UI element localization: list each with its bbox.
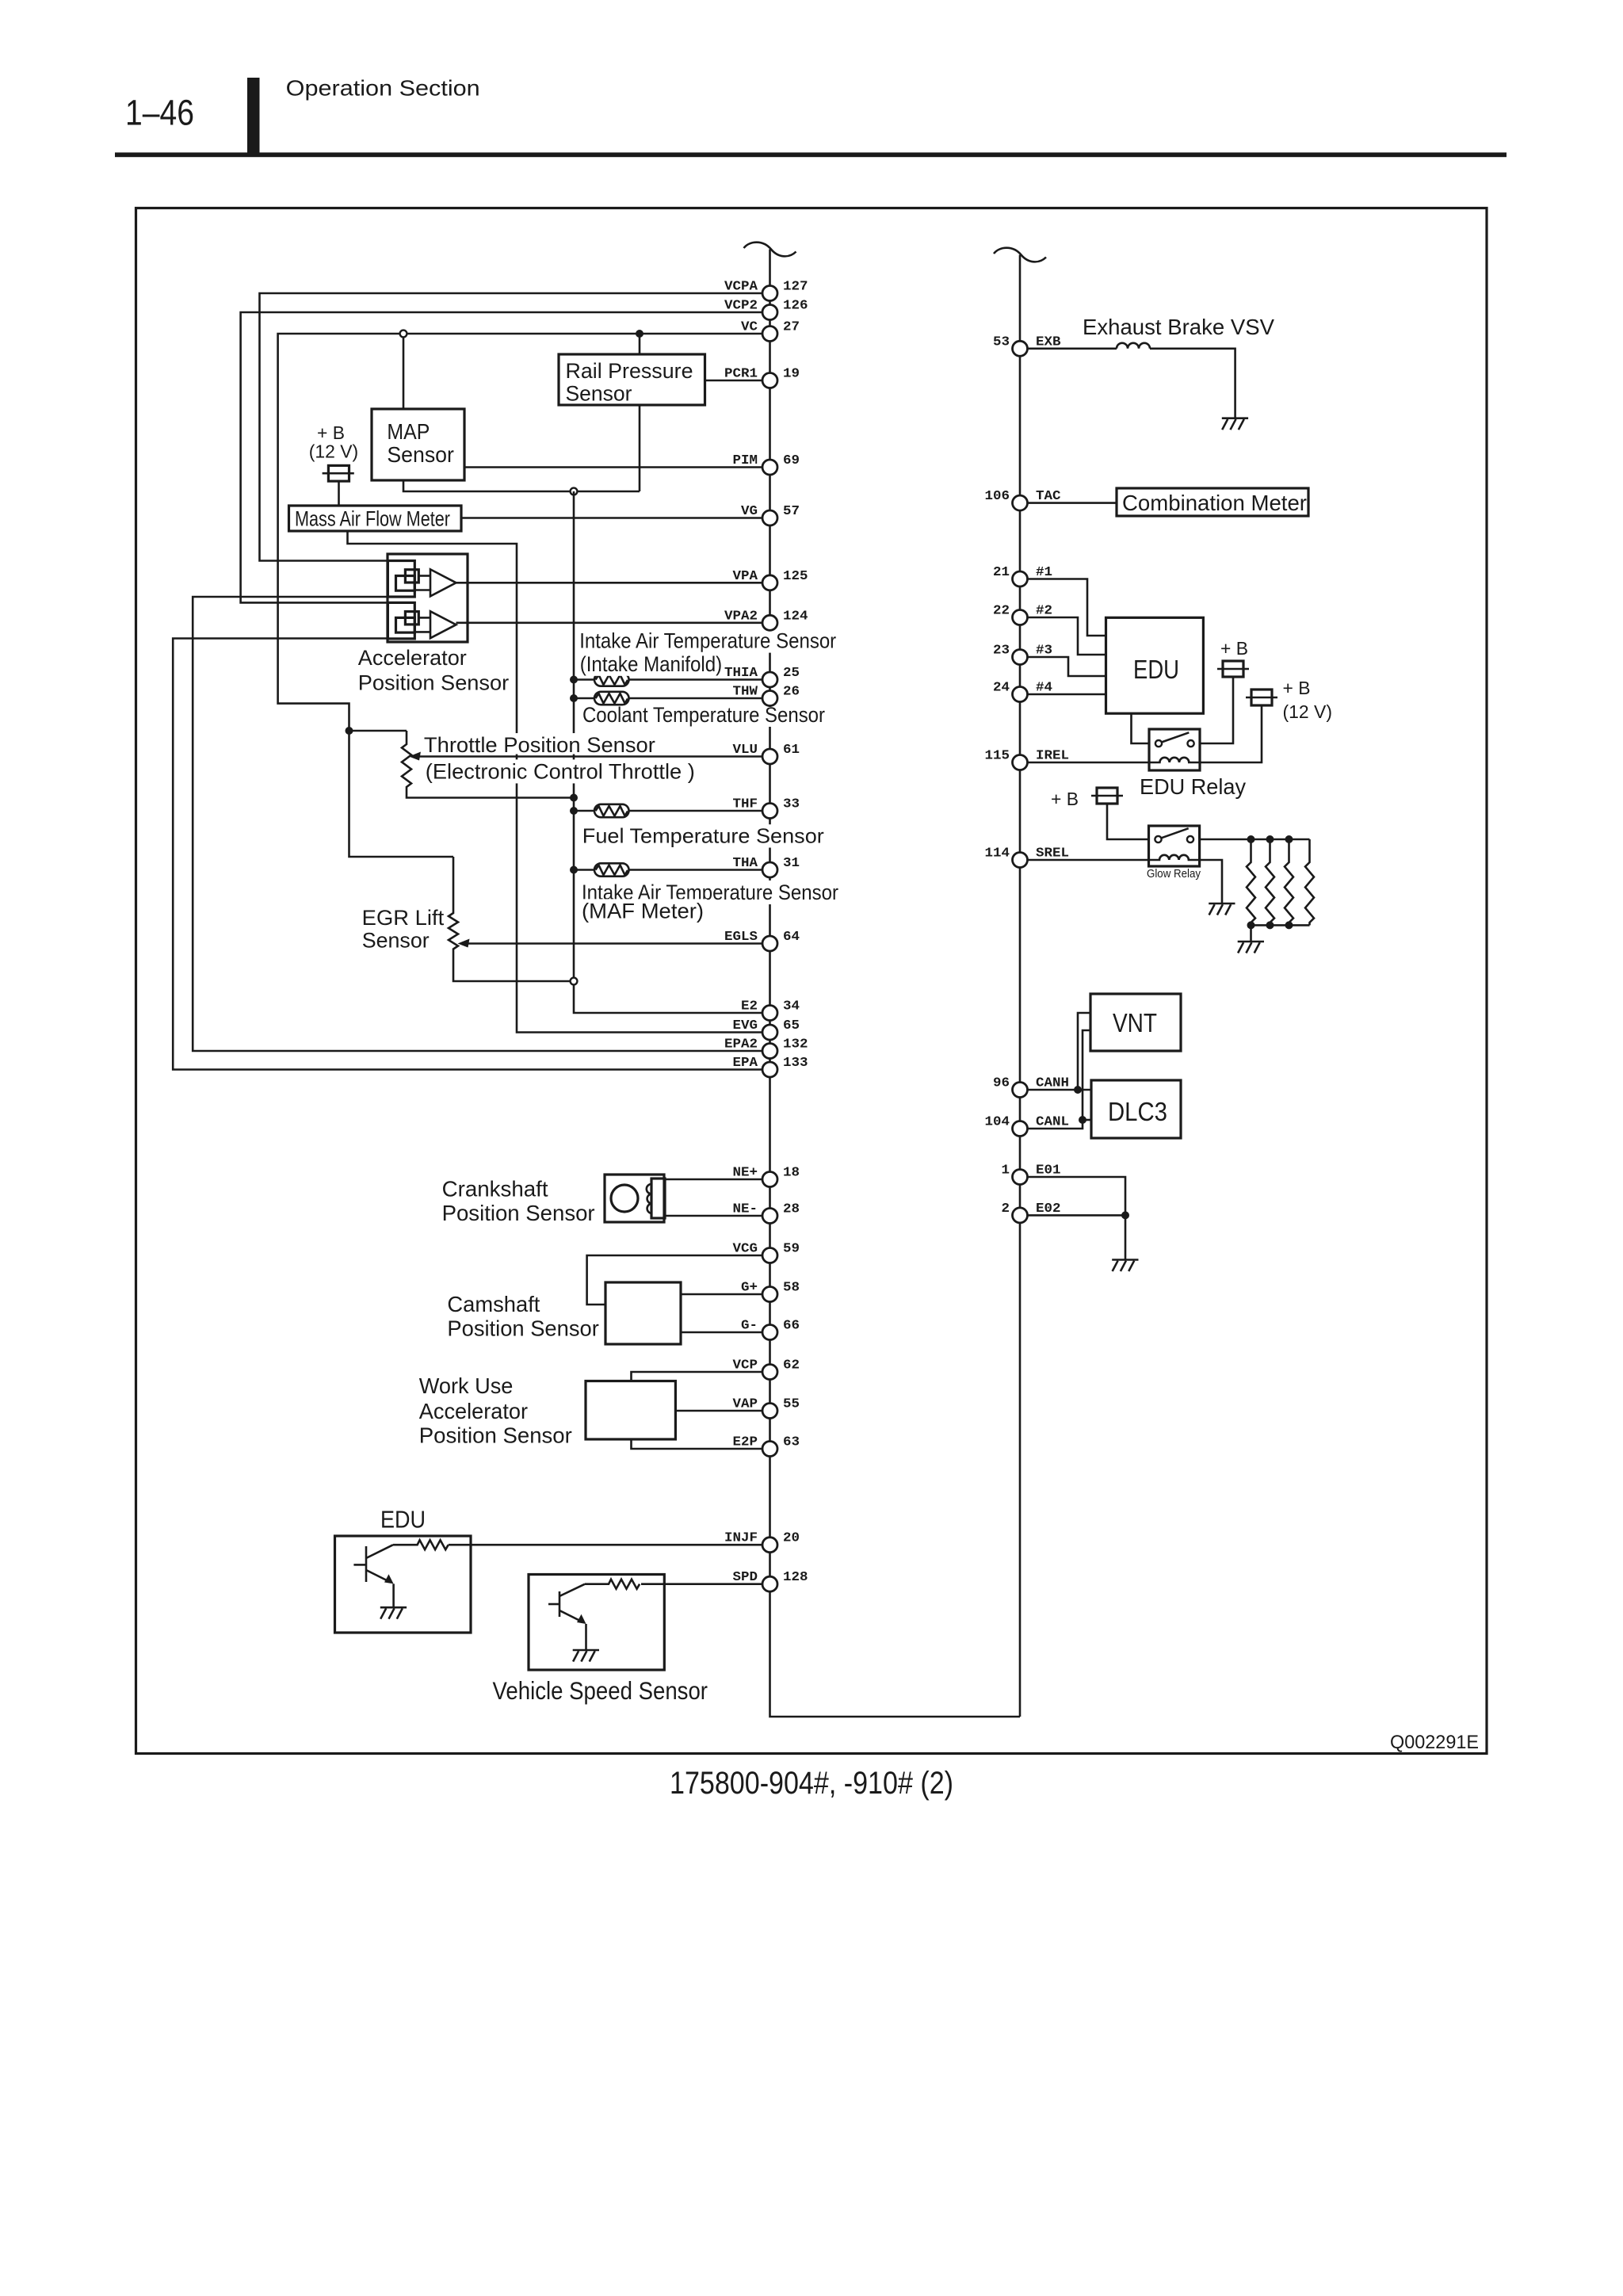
- svg-text:53: 53: [993, 334, 1010, 350]
- wire EDU emitter to ground: [392, 1584, 395, 1607]
- svg-text:2: 2: [1002, 1201, 1010, 1217]
- page number 1-46: [125, 93, 194, 133]
- pin G- 66: [741, 1319, 800, 1340]
- svg-text:(12 V): (12 V): [309, 441, 359, 462]
- figure code Q002291E: [1390, 1732, 1479, 1753]
- svg-text:57: 57: [783, 504, 800, 519]
- svg-text:NE+: NE+: [733, 1166, 758, 1181]
- svg-text:55: 55: [783, 1397, 800, 1412]
- pin EPA2 132: [724, 1037, 808, 1059]
- accelerator position sensor label: [358, 646, 509, 694]
- svg-text:THW: THW: [733, 685, 758, 700]
- wire +B to mass air flow meter: [338, 481, 340, 506]
- accelerator position sensor box: [388, 554, 468, 642]
- ground exhaust brake VSV: [1222, 418, 1248, 430]
- open node sensor common: [571, 488, 578, 495]
- junction dot VC branch: [346, 727, 353, 735]
- svg-text:Work Use: Work Use: [419, 1373, 514, 1398]
- wire VG: [461, 517, 762, 519]
- svg-text:VCP2: VCP2: [724, 299, 758, 314]
- pin INJF 20: [724, 1531, 800, 1553]
- VNT box: [1090, 994, 1181, 1051]
- svg-text:Position Sensor: Position Sensor: [419, 1423, 572, 1448]
- wire MAF meter bottom to EVG: [348, 531, 763, 1033]
- battery +B symbol (glow relay): [1091, 788, 1123, 804]
- caption part number: [670, 1766, 953, 1801]
- svg-text:SREL: SREL: [1036, 846, 1069, 861]
- glow relay coil: [1149, 855, 1200, 860]
- svg-text:VCP: VCP: [733, 1358, 758, 1373]
- glow relay label: [1147, 868, 1201, 881]
- wire THIA: [574, 678, 762, 681]
- svg-text:104: 104: [985, 1115, 1010, 1130]
- pin E2P 63: [733, 1435, 800, 1457]
- svg-text:1: 1: [1002, 1163, 1010, 1179]
- wire EDU relay to +B: [1200, 677, 1233, 743]
- EDU label (right): [1133, 655, 1179, 684]
- svg-text:SPD: SPD: [733, 1570, 758, 1585]
- MAP sensor label: [387, 419, 454, 467]
- wire glow plugs to ground: [1250, 925, 1252, 942]
- glow plug resistor 1: [1247, 839, 1255, 925]
- svg-text:Intake Air Temperature Sensor: Intake Air Temperature Sensor: [579, 629, 836, 653]
- svg-text:62: 62: [783, 1358, 800, 1373]
- pin EGLS 64: [724, 930, 800, 951]
- left ECU bus squiggle: [744, 243, 796, 257]
- svg-text:22: 22: [993, 604, 1010, 619]
- wire TAC: [1028, 502, 1117, 504]
- EDU box (right): [1106, 617, 1204, 713]
- resistor THW coolant temp: [594, 692, 629, 705]
- pin EPA 133: [733, 1056, 808, 1077]
- svg-text:VPA2: VPA2: [724, 609, 758, 624]
- pin 53 EXB: [993, 334, 1061, 356]
- svg-text:E01: E01: [1036, 1163, 1061, 1179]
- wire INJF: [449, 1544, 762, 1546]
- wire VLU with wiper arrow: [409, 752, 762, 761]
- svg-text:26: 26: [783, 685, 800, 700]
- wire SPD: [641, 1583, 762, 1585]
- wire E2P: [632, 1439, 763, 1449]
- junction dot glow plug top x=1602.5: [1266, 835, 1274, 843]
- svg-text:INJF: INJF: [724, 1531, 758, 1546]
- svg-text:EXB: EXB: [1036, 334, 1061, 350]
- resistor EDU injector feedback: [393, 1540, 449, 1549]
- glow plug resistor 4: [1305, 839, 1314, 925]
- label +B 12V left: [309, 422, 359, 462]
- pin G+ 58: [741, 1281, 800, 1302]
- wire EDU relay coil to +B 12V: [1200, 705, 1262, 762]
- pin NE- 28: [733, 1202, 800, 1224]
- svg-text:Operation Section: Operation Section: [286, 75, 480, 100]
- resistor THA intake air temp (MAF): [594, 863, 629, 876]
- svg-text:Crankshaft: Crankshaft: [442, 1176, 548, 1201]
- camshaft position sensor box: [605, 1282, 681, 1344]
- svg-text:133: 133: [783, 1056, 808, 1071]
- svg-text:+ B: + B: [1283, 678, 1311, 698]
- combination meter label: [1122, 491, 1307, 515]
- svg-text:EPA: EPA: [733, 1056, 758, 1071]
- svg-text:Vehicle Speed Sensor: Vehicle Speed Sensor: [493, 1676, 708, 1705]
- svg-text:Sensor: Sensor: [387, 442, 454, 467]
- resistor THIA intake air temp (manifold): [594, 673, 629, 686]
- svg-text:(MAF Meter): (MAF Meter): [582, 899, 704, 923]
- right ECU bus wire: [1019, 255, 1022, 1717]
- wire EGLS with wiper arrow: [458, 939, 763, 948]
- pin PCR1 19: [724, 367, 800, 388]
- exhaust brake VSV label: [1083, 315, 1274, 339]
- pin VPA2 124: [724, 609, 808, 630]
- pin 1 E01: [1002, 1163, 1061, 1185]
- right ECU bus squiggle: [994, 248, 1046, 262]
- crankshaft position sensor symbol: [605, 1175, 665, 1222]
- wire VC: [278, 334, 770, 857]
- svg-text:21: 21: [993, 565, 1010, 580]
- svg-text:114: 114: [985, 846, 1010, 861]
- pin THA 31: [733, 856, 800, 877]
- svg-text:128: 128: [783, 1570, 808, 1585]
- pin SPD 128: [733, 1570, 808, 1591]
- wire glow relay coil to ground: [1200, 860, 1222, 904]
- svg-text:106: 106: [985, 489, 1010, 504]
- wire CANH: [1028, 1013, 1091, 1090]
- EDU relay contacts: [1155, 732, 1194, 747]
- svg-text:G-: G-: [741, 1319, 758, 1334]
- svg-text:31: 31: [783, 856, 800, 871]
- svg-text:1–46: 1–46: [125, 93, 194, 133]
- crankshaft position sensor label: [442, 1176, 595, 1225]
- wire VSS emitter to ground: [585, 1624, 587, 1650]
- pin 106 TAC: [985, 489, 1061, 510]
- wire IREL: [1028, 762, 1150, 764]
- intake air temperature sensor (manifold) label: [576, 629, 839, 653]
- wire glow relay switch to glow plugs: [1200, 839, 1310, 841]
- pin E2 34: [741, 999, 800, 1021]
- svg-text:Accelerator: Accelerator: [419, 1399, 528, 1423]
- label +B (glow relay): [1051, 789, 1079, 809]
- junction dot CANH: [1074, 1086, 1082, 1094]
- pin 114 SREL: [985, 846, 1070, 868]
- wire VC to rail pressure sensor: [639, 334, 641, 354]
- wire EDU to EDU relay: [1132, 713, 1150, 743]
- rail pressure sensor label: [566, 359, 693, 406]
- svg-text:IREL: IREL: [1036, 749, 1069, 764]
- svg-text:(12 V): (12 V): [1283, 701, 1333, 722]
- junction dot THA: [570, 866, 578, 874]
- throttle position sensor label: [421, 733, 659, 757]
- svg-text:DLC3: DLC3: [1108, 1097, 1167, 1126]
- svg-text:124: 124: [783, 609, 808, 624]
- wire injector #1: [1028, 579, 1106, 636]
- svg-text:Position Sensor: Position Sensor: [358, 670, 509, 694]
- svg-text:127: 127: [783, 280, 808, 295]
- junction dot E01/E02: [1121, 1211, 1129, 1219]
- junction dot THIA: [570, 676, 578, 684]
- wire THA: [574, 869, 762, 871]
- EGR lift sensor potentiometer: [449, 857, 574, 981]
- accelerator sensor element 1: [388, 561, 456, 598]
- left ECU bus wire: [770, 250, 1021, 1717]
- pin 23 #3: [993, 644, 1052, 665]
- svg-text:27: 27: [783, 320, 800, 335]
- svg-text:Coolant Temperature Sensor: Coolant Temperature Sensor: [582, 703, 825, 727]
- svg-text:VC: VC: [741, 320, 758, 335]
- svg-text:E2: E2: [741, 999, 758, 1014]
- svg-text:NE-: NE-: [733, 1202, 758, 1217]
- svg-text:EPA2: EPA2: [724, 1037, 758, 1052]
- transistor Q-EDU: [353, 1545, 393, 1584]
- svg-text:25: 25: [783, 666, 800, 681]
- svg-text:Camshaft: Camshaft: [447, 1292, 540, 1316]
- ground glow relay coil: [1209, 904, 1235, 915]
- pin VPA 125: [733, 569, 808, 590]
- ground EDU: [380, 1607, 407, 1619]
- glow plug resistor 2: [1266, 839, 1274, 925]
- svg-text:Accelerator: Accelerator: [358, 646, 467, 670]
- ground E02: [1112, 1260, 1138, 1272]
- svg-text:69: 69: [783, 453, 800, 468]
- svg-text:#3: #3: [1036, 644, 1052, 659]
- svg-text:19: 19: [783, 367, 800, 382]
- pin 104 CANL: [985, 1115, 1070, 1137]
- wire CANH to DLC3: [1078, 1089, 1091, 1091]
- junction dot VC/rail pressure: [636, 330, 643, 338]
- svg-text:33: 33: [783, 797, 800, 812]
- svg-text:58: 58: [783, 1281, 800, 1296]
- wire sensor common vertical: [574, 491, 762, 1013]
- pin THW 26: [733, 685, 800, 706]
- svg-text:20: 20: [783, 1531, 800, 1546]
- battery +B 12V symbol: [1246, 690, 1277, 705]
- svg-text:CANL: CANL: [1036, 1115, 1069, 1130]
- pin VLU 61: [733, 743, 800, 764]
- svg-text:CANH: CANH: [1036, 1076, 1069, 1091]
- svg-text:VAP: VAP: [733, 1397, 758, 1412]
- svg-text:61: 61: [783, 743, 800, 758]
- svg-text:TAC: TAC: [1036, 489, 1061, 504]
- svg-text:(Electronic Control Throttle ): (Electronic Control Throttle ): [426, 759, 695, 783]
- junction dot glow plug top x=1626.5: [1285, 835, 1293, 843]
- pin VCPA 127: [724, 280, 808, 301]
- pin 96 CANH: [993, 1076, 1069, 1098]
- glow relay box K2: [1149, 826, 1200, 866]
- svg-text:E2P: E2P: [733, 1435, 758, 1450]
- battery +B symbol left: [323, 465, 354, 481]
- pin PIM 69: [733, 453, 800, 475]
- work use accelerator position sensor label: [419, 1373, 572, 1448]
- wire VC to MAP sensor: [403, 334, 405, 409]
- svg-text:63: 63: [783, 1435, 800, 1450]
- wire THW: [574, 697, 762, 700]
- resistor VSS: [585, 1580, 640, 1589]
- svg-text:+ B: + B: [1220, 638, 1248, 659]
- wire E01: [1028, 1177, 1126, 1215]
- svg-text:28: 28: [783, 1202, 800, 1217]
- svg-text:Sensor: Sensor: [362, 929, 430, 953]
- svg-text:Exhaust Brake VSV: Exhaust Brake VSV: [1083, 315, 1274, 339]
- label +B 12V: [1283, 678, 1333, 722]
- svg-text:+ B: + B: [317, 422, 345, 443]
- wire G+: [681, 1293, 762, 1296]
- pin 24 #4: [993, 681, 1052, 702]
- DLC3 box: [1091, 1080, 1181, 1138]
- glow relay contacts: [1155, 828, 1193, 842]
- svg-text:EGLS: EGLS: [724, 930, 758, 945]
- svg-text:THIA: THIA: [724, 666, 758, 681]
- diagram frame: [136, 208, 1487, 1754]
- wire MAP bottom / sensor common: [403, 480, 640, 491]
- wire +B to glow relay: [1107, 804, 1149, 839]
- camshaft position sensor label: [447, 1292, 598, 1341]
- pin VCG 59: [733, 1242, 800, 1263]
- svg-text:96: 96: [993, 1076, 1010, 1091]
- EGR lift sensor label: [362, 906, 445, 952]
- svg-text:Throttle Position Sensor: Throttle Position Sensor: [424, 733, 655, 757]
- wire VCP: [632, 1372, 763, 1381]
- pin THIA 25: [724, 666, 800, 687]
- wire NE+: [665, 1179, 762, 1181]
- wire PCR1: [705, 380, 763, 382]
- wire VCPA to accelerator sensor: [260, 293, 770, 561]
- pin VC 27: [741, 320, 800, 342]
- label +B (EDU relay): [1220, 638, 1248, 659]
- wire EPA return from accelerator sensor: [173, 639, 762, 1070]
- svg-text:EDU: EDU: [1133, 655, 1179, 684]
- svg-text:126: 126: [783, 299, 808, 314]
- EDU label (left): [380, 1506, 426, 1534]
- svg-text:#1: #1: [1036, 565, 1052, 580]
- wire injector #3: [1028, 657, 1106, 676]
- VNT label: [1113, 1008, 1157, 1037]
- svg-text:132: 132: [783, 1037, 808, 1052]
- battery +B symbol (EDU relay): [1217, 661, 1249, 677]
- header bar: [247, 78, 260, 155]
- junction dot glow plug bottom x=1578.5: [1247, 921, 1255, 929]
- svg-text:23: 23: [993, 644, 1010, 659]
- svg-text:THF: THF: [733, 797, 758, 812]
- svg-text:Fuel Temperature Sensor: Fuel Temperature Sensor: [582, 824, 824, 848]
- svg-text:VG: VG: [741, 504, 758, 519]
- EDU relay box K1: [1149, 729, 1200, 770]
- vehicle speed sensor label: [493, 1676, 708, 1705]
- wire CANL to DLC3: [1083, 1119, 1091, 1121]
- junction dot glow plug bottom x=1626.5: [1285, 921, 1293, 929]
- wire VPA2: [456, 621, 763, 624]
- svg-text:Position Sensor: Position Sensor: [442, 1201, 595, 1225]
- fuel temperature sensor label: [579, 824, 827, 848]
- svg-text:EVG: EVG: [733, 1018, 758, 1033]
- svg-text:Sensor: Sensor: [566, 382, 632, 406]
- svg-text:65: 65: [783, 1018, 800, 1033]
- pin 22 #2: [993, 604, 1052, 625]
- pin VG 57: [741, 504, 800, 525]
- wire EPA2 return from accelerator sensor: [193, 597, 762, 1051]
- wire SREL: [1028, 859, 1149, 861]
- wire VC branch to throttle pot: [349, 730, 407, 732]
- pin VCP 62: [733, 1358, 800, 1380]
- wire PIM: [464, 466, 762, 468]
- svg-text:Q002291E: Q002291E: [1390, 1732, 1479, 1753]
- EDU box (left): [335, 1536, 472, 1633]
- svg-text:175800-904#, -910# (2): 175800-904#, -910# (2): [670, 1766, 953, 1801]
- svg-text:18: 18: [783, 1166, 800, 1181]
- svg-text:VCPA: VCPA: [724, 280, 758, 295]
- svg-text:24: 24: [993, 681, 1010, 696]
- wire rail pressure sensor bottom: [639, 405, 641, 491]
- work use accelerator position sensor box: [586, 1381, 675, 1440]
- mass air flow meter label: [295, 506, 450, 530]
- svg-text:+ B: + B: [1051, 789, 1079, 809]
- svg-text:VNT: VNT: [1113, 1008, 1157, 1037]
- open node EGR bottom: [571, 978, 578, 985]
- svg-text:115: 115: [985, 749, 1010, 764]
- junction dot CANL: [1079, 1116, 1086, 1124]
- pin THF 33: [733, 797, 800, 819]
- header rule: [115, 152, 1507, 157]
- wire glow plugs bottom bus: [1251, 924, 1310, 926]
- mass air flow meter box: [289, 506, 462, 531]
- svg-text:#2: #2: [1036, 604, 1052, 619]
- svg-text:THA: THA: [733, 856, 758, 871]
- pin VCP2 126: [724, 299, 808, 320]
- svg-text:#4: #4: [1036, 681, 1052, 696]
- wire VPA: [456, 582, 763, 584]
- wire injector #4: [1028, 693, 1106, 696]
- svg-text:Glow Relay: Glow Relay: [1147, 868, 1201, 881]
- wire CANL: [1028, 1030, 1091, 1129]
- open node VC/MAP: [400, 330, 407, 338]
- wire THF: [574, 810, 762, 812]
- junction dot THW: [570, 694, 578, 702]
- svg-text:VCG: VCG: [733, 1242, 758, 1257]
- pin NE+ 18: [733, 1166, 800, 1187]
- svg-text:66: 66: [783, 1319, 800, 1334]
- svg-text:Mass Air Flow Meter: Mass Air Flow Meter: [295, 506, 450, 530]
- vehicle speed sensor box: [529, 1575, 664, 1671]
- svg-text:Position Sensor: Position Sensor: [447, 1316, 598, 1341]
- accelerator sensor element 2: [388, 602, 456, 639]
- pin 21 #1: [993, 565, 1052, 586]
- svg-text:EDU Relay: EDU Relay: [1140, 774, 1246, 799]
- transistor Q-VSS: [548, 1584, 586, 1624]
- glow plug resistor 3: [1285, 839, 1293, 925]
- wire EXB: [1028, 347, 1117, 350]
- MAP sensor box U-MAP: [372, 409, 464, 480]
- svg-text:E02: E02: [1036, 1201, 1061, 1217]
- svg-text:PCR1: PCR1: [724, 367, 758, 382]
- coil exhaust brake VSV: [1117, 343, 1150, 349]
- pin VAP 55: [733, 1397, 800, 1419]
- svg-text:PIM: PIM: [733, 453, 758, 468]
- svg-text:Rail Pressure: Rail Pressure: [566, 359, 693, 383]
- svg-text:125: 125: [783, 569, 808, 584]
- junction dot THF: [570, 807, 578, 815]
- svg-text:59: 59: [783, 1242, 800, 1257]
- pin 2 E02: [1002, 1201, 1061, 1223]
- wire E02: [1028, 1214, 1126, 1217]
- combination meter box: [1117, 488, 1308, 516]
- ground glow plugs: [1238, 942, 1264, 953]
- coolant temperature sensor label: [579, 703, 828, 727]
- svg-text:EGR Lift: EGR Lift: [362, 906, 445, 930]
- svg-text:VLU: VLU: [733, 743, 758, 758]
- resistor THF fuel temp: [594, 804, 629, 817]
- wire G-: [681, 1331, 762, 1334]
- svg-text:Combination Meter: Combination Meter: [1122, 491, 1307, 515]
- wire VCG: [587, 1255, 762, 1305]
- ground VSS: [573, 1650, 599, 1662]
- wire E02 to ground: [1125, 1215, 1127, 1259]
